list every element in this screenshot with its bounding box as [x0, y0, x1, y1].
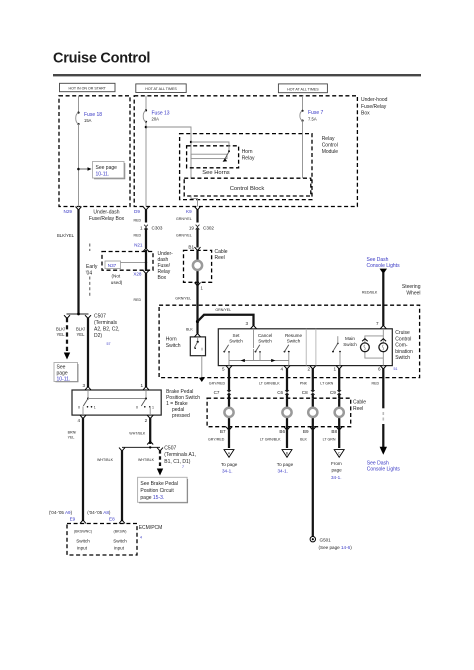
terminal brake pin 1 — [140, 383, 149, 390]
svg-text:15A: 15A — [84, 118, 92, 123]
wire GRN/YEL K9 to C302 — [176, 210, 198, 223]
wire LT GRN/BLK pin4 to C6 — [259, 368, 287, 398]
see horns arrow — [202, 158, 229, 176]
wire RED D9 to C303 — [134, 210, 147, 223]
under-hood fuse/relay box (dashed) — [134, 96, 387, 207]
fuse F13 20A — [143, 109, 170, 123]
slip ring C7 — [224, 408, 233, 417]
svg-text:(Terminals: (Terminals — [94, 320, 118, 326]
terminal B8 — [323, 427, 343, 442]
wire BLK/YEL N29 to C507 — [57, 210, 79, 315]
svg-text:WHT/BLK: WHT/BLK — [97, 458, 114, 462]
svg-text:C507: C507 — [164, 446, 176, 452]
svg-text:From: From — [331, 461, 342, 466]
terminal pin 4 — [280, 366, 290, 372]
svg-text:X28: X28 — [133, 272, 142, 277]
svg-text:3: 3 — [245, 321, 248, 326]
svg-text:Switch: Switch — [166, 343, 181, 349]
horn relay coil — [191, 154, 227, 158]
terminal B7 — [208, 427, 232, 442]
terminal pin 1 — [333, 366, 342, 372]
svg-text:B1: B1 — [188, 245, 194, 250]
svg-text:B8: B8 — [331, 429, 337, 434]
svg-text:('04-'05 A8): ('04-'05 A8) — [87, 510, 111, 515]
relay control module box (dashed) — [180, 134, 339, 200]
svg-text:RED/BLK: RED/BLK — [362, 291, 378, 295]
terminal pin 2 — [307, 366, 315, 372]
svg-text:bination: bination — [395, 349, 413, 355]
wire pin3 internal — [253, 329, 255, 348]
wire fuse7 feed — [302, 96, 304, 110]
wire LT GRN pin1 to C9 — [320, 368, 339, 398]
wire BLK/YEL dashed branch to see page 10-11 — [56, 318, 70, 360]
wire BLK/YEL to brake pedal switch pin 3 — [76, 318, 88, 387]
horn switch box — [166, 336, 206, 355]
svg-text:GRN/YEL: GRN/YEL — [176, 233, 192, 237]
svg-text:Cancel: Cancel — [258, 333, 272, 338]
svg-text:RED: RED — [134, 234, 142, 238]
svg-text:LT GRN: LT GRN — [320, 381, 333, 385]
horn switch contact — [194, 337, 202, 351]
control block box (dashed) — [184, 178, 311, 196]
svg-text:Under-dash: Under-dash — [93, 209, 119, 215]
resume switch — [284, 333, 303, 353]
svg-text:GRN/YEL: GRN/YEL — [176, 217, 192, 221]
terminal horn switch — [195, 334, 201, 337]
terminal pin 7 — [376, 321, 386, 329]
svg-text:Horn: Horn — [166, 336, 177, 342]
terminal B9 — [300, 427, 316, 442]
svg-text:Switch: Switch — [76, 538, 90, 543]
wire fuse13 feed — [145, 96, 147, 110]
svg-text:(BKSWNC): (BKSWNC) — [74, 529, 92, 533]
svg-text:Cable: Cable — [353, 399, 366, 405]
connector C507 upper (Terminals A2,B2,C2,D2) — [64, 313, 120, 346]
svg-text:20A: 20A — [152, 117, 160, 122]
svg-text:0: 0 — [136, 405, 138, 409]
svg-text:C303: C303 — [152, 225, 163, 230]
terminal brake pin 3 — [82, 383, 91, 390]
svg-text:'04: '04 — [86, 271, 93, 277]
svg-text:Cruise Control: Cruise Control — [53, 51, 150, 67]
svg-text:1: 1 — [140, 225, 143, 230]
svg-text:1: 1 — [333, 367, 336, 372]
svg-text:BLK: BLK — [300, 438, 307, 442]
offpage triangle B — [277, 450, 294, 474]
svg-text:2: 2 — [307, 367, 310, 372]
svg-text:LT GRN/BLK: LT GRN/BLK — [259, 381, 280, 385]
indicator lamp right — [379, 339, 388, 352]
svg-text:LT GRN/BLK: LT GRN/BLK — [260, 438, 281, 442]
svg-text:1: 1 — [152, 405, 154, 409]
svg-text:C507: C507 — [94, 313, 106, 319]
junction dot see-page branch — [77, 168, 80, 171]
terminal E9 — [49, 510, 86, 523]
svg-text:B6: B6 — [279, 429, 285, 434]
svg-text:ECM/PCM: ECM/PCM — [139, 525, 163, 531]
svg-text:pressed: pressed — [172, 413, 190, 419]
label box HOT AT ALL TIMES (center) — [136, 84, 186, 93]
junction dot GRN/YEL branch — [196, 320, 199, 323]
svg-text:Relay: Relay — [242, 156, 255, 162]
under-dash fuse/relay box (top left, dashed) — [59, 96, 130, 207]
slip ring C9 — [335, 408, 344, 417]
svg-text:Early: Early — [86, 264, 98, 270]
connector C302 pin 19 — [189, 225, 215, 231]
svg-text:page 15-3.: page 15-3. — [140, 495, 164, 501]
svg-text:4: 4 — [77, 418, 80, 423]
wire RED/BLK to comb switch pin 7 — [362, 273, 383, 326]
svg-text:C7: C7 — [214, 390, 220, 395]
svg-text:E8: E8 — [109, 516, 115, 521]
svg-text:RED: RED — [134, 219, 142, 223]
reference box See page 10-11 (lower) — [54, 363, 78, 383]
svg-text:Fuse 7: Fuse 7 — [308, 110, 324, 116]
wire GRN/YEL C302 to B1 — [176, 229, 198, 248]
wire WHT/BLK pin2 to C507 — [129, 418, 150, 445]
label Early '04 — [86, 244, 98, 297]
wire GRY/RED pin5 to C7 — [209, 368, 229, 398]
arrow to see page 10-11 — [79, 167, 92, 171]
svg-text:Resume: Resume — [285, 333, 303, 338]
svg-text:RED: RED — [134, 298, 142, 302]
wire RED pin6 down — [372, 368, 388, 455]
svg-text:Control Block: Control Block — [230, 186, 265, 192]
terminal N21 — [134, 242, 149, 251]
svg-text:K9: K9 — [186, 209, 192, 214]
terminal B6 — [260, 427, 290, 442]
svg-text:Main: Main — [345, 336, 355, 341]
svg-text:E9: E9 — [70, 516, 76, 521]
svg-text:Box: Box — [361, 110, 370, 116]
svg-text:page: page — [332, 468, 343, 473]
svg-text:57: 57 — [107, 342, 111, 346]
svg-text:5: 5 — [222, 367, 225, 372]
svg-text:Console Lights: Console Lights — [367, 263, 401, 269]
svg-text:used): used) — [111, 280, 123, 285]
svg-text:6: 6 — [378, 367, 381, 372]
svg-text:N21: N21 — [134, 242, 143, 247]
svg-text:Control: Control — [395, 336, 411, 342]
svg-text:GRY/RED: GRY/RED — [208, 438, 225, 442]
svg-text:Relay: Relay — [322, 136, 335, 142]
wire WHT/BLK to E8 — [97, 450, 122, 521]
relay N37 (not used) — [105, 261, 147, 285]
terminal pin 5 — [222, 366, 232, 372]
label box HOT AT ALL TIMES (right) — [278, 84, 327, 93]
svg-text:Cruise: Cruise — [395, 330, 410, 336]
label Under-dash Fuse/Relay Box — [89, 209, 125, 222]
wire GRN/YEL cable reel to horn switch — [175, 285, 197, 334]
svg-text:To page: To page — [221, 462, 238, 467]
svg-text:Steering: Steering — [402, 284, 421, 290]
svg-text:7: 7 — [182, 465, 184, 469]
svg-text:1: 1 — [94, 405, 96, 409]
svg-text:G501: G501 — [320, 538, 332, 543]
terminal N29 — [64, 207, 82, 214]
svg-text:Switch: Switch — [395, 355, 410, 361]
svg-text:(Not: (Not — [112, 274, 121, 279]
terminal E8 — [87, 510, 125, 523]
wire fuse7 to control block — [302, 121, 304, 179]
label box HOT IN ON OR START — [60, 83, 116, 91]
svg-text:Com-: Com- — [395, 343, 408, 349]
wire B6 to offpage B — [286, 429, 288, 448]
ECM/PCM box (dashed) — [67, 524, 162, 556]
brake switch link line — [88, 398, 146, 400]
svg-text:See page: See page — [96, 165, 118, 171]
svg-text:Switch: Switch — [113, 538, 127, 543]
terminal K9 — [186, 207, 201, 214]
svg-text:input: input — [77, 545, 88, 550]
svg-text:C6: C6 — [277, 390, 283, 395]
under-dash fuse/relay box small (dashed, early 04) — [102, 251, 173, 281]
svg-text:(See page 14-6): (See page 14-6) — [319, 545, 353, 550]
svg-text:Cable: Cable — [215, 249, 228, 255]
svg-text:B1, C1, D1): B1, C1, D1) — [164, 459, 190, 465]
svg-text:2: 2 — [145, 418, 148, 423]
svg-text:(BKSW): (BKSW) — [114, 529, 127, 533]
wire B8 from offpage C — [338, 429, 340, 448]
connector C303 pin 1 — [140, 225, 163, 231]
terminal pin 3 — [245, 321, 256, 329]
wire B7 to offpage A — [228, 429, 230, 448]
svg-text:Reel: Reel — [215, 255, 225, 261]
svg-text:Switch: Switch — [229, 339, 243, 344]
svg-text:C302: C302 — [203, 225, 214, 230]
svg-text:input: input — [114, 545, 125, 550]
horn switch output wire — [199, 356, 205, 382]
svg-text:4: 4 — [140, 536, 142, 540]
svg-text:4: 4 — [280, 367, 283, 372]
svg-text:19: 19 — [189, 225, 195, 230]
wire WHT/BLK dashed branch to brake pedal circuit — [138, 450, 163, 476]
svg-text:Switch: Switch — [343, 342, 357, 347]
svg-text:YEL: YEL — [68, 436, 75, 440]
offpage triangle A — [221, 450, 238, 474]
svg-text:Under-hood: Under-hood — [361, 97, 388, 103]
horn relay switch — [190, 141, 230, 159]
svg-text:Console Lights: Console Lights — [367, 466, 401, 472]
connector C6 — [277, 390, 289, 395]
svg-text:Position Circuit: Position Circuit — [140, 488, 174, 494]
svg-text:See Horns: See Horns — [202, 170, 229, 176]
steering wheel box (dashed) — [159, 284, 421, 377]
ground G501 — [310, 537, 352, 550]
svg-text:N37: N37 — [108, 263, 117, 268]
svg-text:HOT IN ON OR START: HOT IN ON OR START — [69, 87, 107, 91]
wire fuse13 to D9 — [145, 122, 147, 207]
lamp bracket from pin7 — [365, 329, 383, 366]
svg-text:RED: RED — [372, 381, 380, 385]
brake switch right contact — [136, 390, 154, 415]
wire through cable reel — [196, 250, 198, 286]
wire fuse18 feed — [78, 96, 80, 112]
terminal brake pin 2 — [145, 415, 154, 423]
svg-text:N29: N29 — [64, 209, 73, 214]
cable reel lower (dashed box) — [207, 398, 366, 427]
main switch — [332, 336, 357, 365]
svg-text:To page: To page — [277, 462, 294, 467]
svg-text:D9: D9 — [134, 209, 140, 214]
cable reel upper (dashed box) — [184, 249, 228, 282]
terminal cable reel pin 1 — [195, 283, 204, 291]
terminal pin 6 — [378, 366, 386, 372]
connector C9 — [330, 390, 341, 395]
svg-text:7: 7 — [376, 321, 379, 326]
svg-text:C9: C9 — [330, 390, 336, 395]
fuse F7 7.5A — [300, 110, 324, 122]
svg-text:Horn: Horn — [242, 149, 253, 155]
svg-text:7.5A: 7.5A — [308, 117, 317, 122]
wire RED C303 to N21 — [134, 229, 147, 249]
set switch — [223, 333, 243, 353]
reference box See page 10-11 (upper) — [93, 162, 125, 179]
wire PNK pin2 to C8 — [300, 368, 313, 398]
connector C7 — [214, 390, 231, 395]
cancel switch — [255, 333, 273, 361]
svg-text:C: C — [338, 451, 341, 455]
svg-text:B9: B9 — [303, 429, 309, 434]
svg-text:HOT AT ALL TIMES: HOT AT ALL TIMES — [145, 87, 177, 91]
svg-text:YEL: YEL — [57, 332, 66, 337]
svg-text:Fuse/Relay: Fuse/Relay — [361, 104, 387, 110]
svg-text:51: 51 — [394, 367, 398, 371]
offpage triangle C — [331, 450, 344, 480]
slip ring C8 — [308, 408, 317, 417]
ECM input BKSW — [113, 529, 127, 550]
svg-text:YEL: YEL — [77, 332, 86, 337]
terminal brake pin 4 — [77, 415, 86, 423]
svg-text:GRN/YEL: GRN/YEL — [175, 297, 191, 301]
connector C507 lower (Terminals A1,B1,C1,D1) — [119, 441, 196, 469]
svg-text:Reel: Reel — [353, 406, 363, 412]
svg-text:('04-'05 A9): ('04-'05 A9) — [49, 510, 73, 515]
terminal D9 — [134, 207, 149, 214]
svg-text:WHT/BLK: WHT/BLK — [129, 432, 146, 436]
svg-text:3: 3 — [82, 383, 85, 388]
svg-text:Fuse 13: Fuse 13 — [152, 111, 170, 117]
terminal X28 — [133, 270, 149, 276]
svg-text:Module: Module — [322, 149, 339, 155]
wires through cable reel — [229, 398, 339, 430]
brake pedal position switch box — [72, 389, 200, 419]
brake switch left contact — [78, 390, 96, 415]
wire RED X28 to brake pedal switch pin 1 — [134, 273, 147, 388]
see dash console lights (top) — [367, 257, 401, 274]
svg-text:Switch: Switch — [258, 339, 272, 344]
svg-text:Set: Set — [233, 333, 241, 338]
svg-text:Fuse/Relay Box: Fuse/Relay Box — [89, 216, 125, 222]
indicator lamp left — [361, 339, 370, 352]
svg-text:10-11.: 10-11. — [96, 172, 110, 178]
terminal B1 cable reel — [188, 245, 200, 251]
svg-text:1: 1 — [140, 383, 143, 388]
svg-text:34-1.: 34-1. — [331, 475, 341, 480]
svg-text:A2, B2, C2,: A2, B2, C2, — [94, 326, 120, 332]
svg-text:Box: Box — [158, 275, 167, 281]
wire fuse18 to N29 — [78, 124, 80, 207]
svg-text:34-1.: 34-1. — [222, 468, 232, 473]
wire branch to horn relay coil — [146, 127, 191, 178]
svg-text:WHT/BLK: WHT/BLK — [138, 458, 155, 462]
svg-text:Wheel: Wheel — [406, 290, 420, 296]
svg-text:BLK: BLK — [186, 328, 193, 332]
svg-text:GRY/RED: GRY/RED — [209, 381, 226, 385]
title rule — [53, 74, 421, 76]
svg-text:34-1.: 34-1. — [278, 468, 288, 473]
wire BRN/YEL pin4 to E9 — [68, 418, 83, 522]
svg-text:See Brake Pedal: See Brake Pedal — [140, 481, 178, 487]
svg-text:GRN/YEL: GRN/YEL — [215, 308, 231, 312]
cruise control combination switch box — [218, 329, 413, 371]
connector C8 — [302, 390, 315, 395]
junction dot fuse13 branch — [145, 126, 148, 129]
svg-text:0: 0 — [78, 405, 80, 409]
svg-text:BLK/YEL: BLK/YEL — [57, 233, 75, 238]
svg-text:Switch: Switch — [287, 339, 301, 344]
reference box See Brake Pedal Position Circuit — [138, 477, 188, 503]
svg-text:C8: C8 — [302, 390, 308, 395]
svg-text:Control: Control — [322, 143, 338, 149]
svg-text:HOT AT ALL TIMES: HOT AT ALL TIMES — [287, 87, 319, 91]
svg-text:PNK: PNK — [300, 381, 308, 385]
wire control block to K9 — [191, 196, 198, 207]
switch bus with arrows — [229, 349, 289, 366]
fuse F18 15A — [76, 112, 103, 126]
svg-text:(Terminals A1,: (Terminals A1, — [164, 452, 196, 458]
cable reel slip ring — [193, 261, 202, 270]
horn relay K (dashed box) — [187, 146, 255, 168]
svg-text:10-11.: 10-11. — [57, 377, 71, 383]
ECM input BKSWNC — [74, 529, 92, 550]
slip ring C6 — [282, 408, 291, 417]
wire inside early04 box — [145, 250, 147, 271]
svg-text:B7: B7 — [220, 429, 226, 434]
wire GRN/YEL branch to comb switch pin 3 — [198, 308, 254, 325]
svg-text:D2): D2) — [94, 333, 102, 339]
svg-text:LT GRN: LT GRN — [323, 438, 336, 442]
svg-text:BRN/: BRN/ — [68, 431, 77, 435]
see dash console lights (bottom) — [367, 461, 401, 473]
wire BLK B9 to G501 — [312, 429, 314, 537]
